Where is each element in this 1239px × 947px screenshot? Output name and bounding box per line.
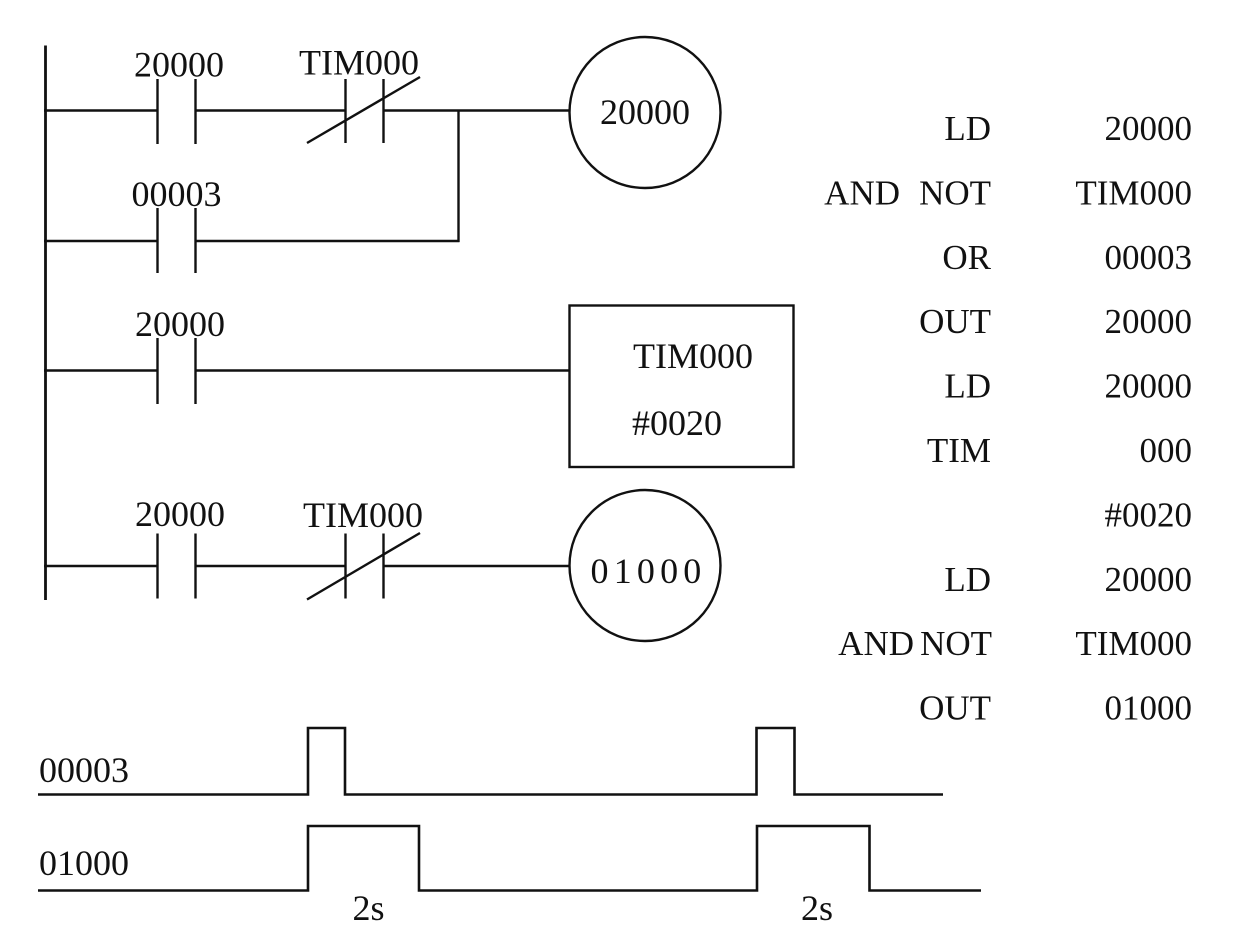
output coil 20000 xyxy=(570,37,721,188)
svg-text:20000: 20000 xyxy=(135,304,225,344)
svg-text:TIM000: TIM000 xyxy=(299,43,419,83)
waveform 01000 xyxy=(38,826,981,891)
svg-text:000: 000 xyxy=(1140,431,1193,470)
output coil 01000 xyxy=(570,490,721,641)
svg-text:2s: 2s xyxy=(801,888,833,928)
svg-text:20000: 20000 xyxy=(135,494,225,534)
instruction LD 20000 (line 8) xyxy=(944,560,1192,599)
svg-text:OR: OR xyxy=(942,238,991,277)
instruction #0020 (line 7) xyxy=(1105,495,1193,534)
rung 4 wire: rail to contact 20000 xyxy=(44,565,157,567)
svg-text:00003: 00003 xyxy=(1105,238,1193,277)
instruction OR 00003 (line 3) xyxy=(942,238,1192,277)
svg-text:00003: 00003 xyxy=(132,174,222,214)
svg-text:LD: LD xyxy=(944,367,991,406)
svg-text:OUT: OUT xyxy=(919,689,991,728)
svg-text:AND: AND xyxy=(824,173,900,212)
svg-text:20000: 20000 xyxy=(1105,560,1193,599)
instruction LD 20000 (line 5) xyxy=(944,367,1192,406)
svg-text:AND: AND xyxy=(838,624,914,663)
rung 3 wire: rail to contact 20000 xyxy=(44,369,157,371)
svg-text:NOT: NOT xyxy=(919,173,991,212)
contact 00003 (rung 2) xyxy=(158,208,196,273)
svg-text:01000: 01000 xyxy=(1105,689,1193,728)
svg-text:00003: 00003 xyxy=(39,750,129,790)
instruction AND NOT TIM000 (line 9) xyxy=(838,624,1192,663)
rung 2 wire: rail to contact 00003 xyxy=(44,240,157,242)
instruction LD 20000 (line 1) xyxy=(944,109,1192,148)
svg-text:TIM000: TIM000 xyxy=(1075,173,1192,212)
contact 20000 (rung 3) xyxy=(158,338,196,404)
rung 1 wire: NC contact to coil 20000 xyxy=(383,109,570,111)
svg-text:OUT: OUT xyxy=(919,302,991,341)
svg-text:2s: 2s xyxy=(352,888,384,928)
rung 1 wire: rail to contact 20000 xyxy=(44,109,157,111)
instruction OUT 20000 (line 4) xyxy=(919,302,1192,341)
svg-text:NOT: NOT xyxy=(920,624,992,663)
timer TIM000 box xyxy=(570,306,794,468)
branch junction wire (rung1 to rung2) xyxy=(457,111,459,243)
rung 3 wire: contact 20000 to timer box xyxy=(195,369,570,371)
rung 4 wire: NC contact to coil 01000 xyxy=(383,565,570,567)
rung 2 wire: contact 00003 to junction xyxy=(195,240,460,242)
left power rail xyxy=(44,46,47,601)
svg-text:20000: 20000 xyxy=(1105,109,1193,148)
waveform 00003 xyxy=(38,728,943,795)
NC contact TIM000 (rung 1) xyxy=(307,77,420,143)
svg-text:01000: 01000 xyxy=(39,843,129,883)
svg-text:LD: LD xyxy=(944,109,991,148)
svg-text:#0020: #0020 xyxy=(632,403,722,443)
svg-text:20000: 20000 xyxy=(1105,302,1193,341)
rung 4 wire: contact 20000 to NC contact xyxy=(195,565,345,567)
NC contact TIM000 (rung 4) xyxy=(307,533,420,600)
svg-text:TIM: TIM xyxy=(927,431,991,470)
instruction OUT 01000 (line 10) xyxy=(919,689,1192,728)
svg-text:20000: 20000 xyxy=(600,92,690,132)
svg-text:#0020: #0020 xyxy=(1105,495,1193,534)
svg-text:20000: 20000 xyxy=(134,45,224,85)
instruction AND NOT TIM000 (line 2) xyxy=(824,173,1192,212)
instruction TIM 000 (line 6) xyxy=(927,431,1192,470)
contact 20000 (rung 4) xyxy=(158,534,196,599)
svg-text:LD: LD xyxy=(944,560,991,599)
svg-text:TIM000: TIM000 xyxy=(633,336,753,376)
svg-text:TIM000: TIM000 xyxy=(1075,624,1192,663)
svg-text:TIM000: TIM000 xyxy=(303,495,423,535)
svg-text:01000: 01000 xyxy=(591,551,707,591)
svg-text:20000: 20000 xyxy=(1105,367,1193,406)
contact 20000 (rung 1) xyxy=(158,79,196,144)
rung 1 wire: contact 20000 to NC contact xyxy=(195,109,345,111)
